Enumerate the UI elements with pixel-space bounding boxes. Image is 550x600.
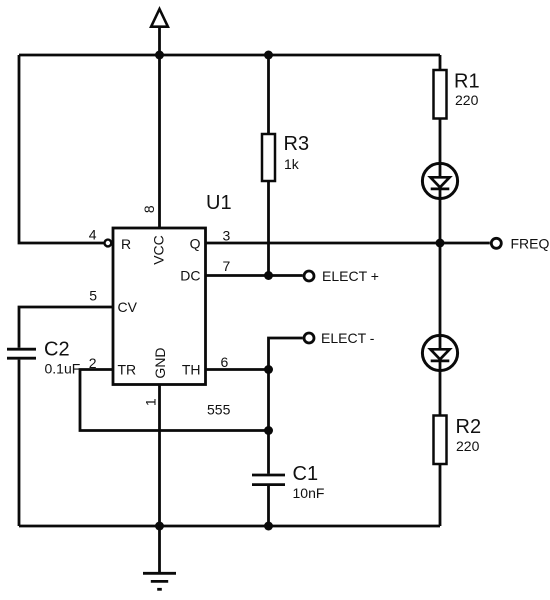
wire pin 7 DC to ELECT+	[206, 274, 303, 277]
svg-text:GND: GND	[152, 347, 168, 378]
wire pin 3 Q to FREQ	[206, 242, 490, 245]
wire left vertical to pin 4	[19, 55, 104, 243]
svg-text:1: 1	[143, 398, 159, 406]
ground symbol	[143, 526, 176, 589]
svg-text:R3: R3	[284, 133, 310, 155]
svg-text:4: 4	[89, 227, 97, 243]
junction ground rail pin1	[155, 522, 164, 531]
svg-text:TR: TR	[118, 362, 137, 378]
wire pin 6 TH	[206, 368, 269, 371]
svg-text:7: 7	[223, 258, 231, 274]
svg-text:220: 220	[456, 438, 480, 454]
junction DC / R3 bottom	[264, 271, 273, 280]
wire pin 5 CV to C2	[19, 307, 113, 348]
svg-text:CV: CV	[118, 299, 138, 315]
junction ground rail C1	[264, 522, 273, 531]
terminal ELECT+	[304, 271, 314, 281]
svg-text:ELECT +: ELECT +	[322, 268, 379, 284]
wire R1 LED column	[439, 55, 442, 526]
svg-text:10nF: 10nF	[293, 485, 325, 501]
svg-text:Q: Q	[190, 236, 201, 252]
svg-text:0.1uF: 0.1uF	[45, 361, 81, 377]
wire C1 bottom	[267, 486, 270, 526]
terminal FREQ	[491, 238, 501, 248]
svg-text:DC: DC	[180, 268, 200, 284]
svg-text:2: 2	[89, 355, 97, 371]
wire bottom rail	[19, 525, 440, 528]
svg-text:555: 555	[207, 402, 231, 418]
svg-text:R: R	[121, 236, 131, 252]
junction VCC rail	[155, 51, 164, 60]
resistor R1	[434, 70, 447, 119]
junction TH / ELECT-	[264, 365, 273, 374]
wire top rail	[19, 54, 440, 57]
capacitor C2 plates	[7, 349, 36, 358]
svg-text:ELECT -: ELECT -	[321, 330, 375, 346]
resistor R3	[262, 134, 275, 181]
svg-text:FREQ: FREQ	[511, 236, 550, 252]
capacitor C1 plates	[252, 475, 285, 485]
IC U1 555 box	[113, 228, 206, 385]
junction R3 top	[264, 51, 273, 60]
svg-text:C1: C1	[293, 463, 319, 485]
resistor R2	[434, 416, 447, 465]
wire R3 column	[267, 55, 270, 276]
svg-text:8: 8	[141, 205, 157, 213]
junction TR / C1	[264, 426, 273, 435]
svg-text:C2: C2	[44, 339, 70, 361]
LED D1	[422, 163, 457, 198]
svg-text:3: 3	[223, 228, 231, 244]
wire VCC stem pin 8	[158, 27, 161, 228]
svg-text:TH: TH	[182, 362, 201, 378]
svg-text:R2: R2	[456, 416, 482, 438]
svg-text:5: 5	[89, 288, 97, 304]
VCC power arrow	[151, 9, 168, 27]
svg-text:R1: R1	[454, 71, 480, 93]
wire pin 2 TR loop	[80, 370, 269, 431]
wire C2 bottom to ground rail	[18, 360, 21, 526]
svg-text:U1: U1	[206, 192, 232, 214]
svg-text:VCC: VCC	[150, 235, 166, 265]
svg-text:6: 6	[221, 354, 229, 370]
svg-text:1k: 1k	[284, 156, 300, 172]
wire pin 1 GND	[158, 385, 161, 527]
wire ELECT- branch and C1 column	[269, 338, 303, 474]
terminal ELECT-	[304, 333, 314, 343]
junction FREQ node	[436, 239, 445, 248]
svg-text:220: 220	[455, 92, 479, 108]
pin 4 inversion bubble	[105, 240, 112, 247]
LED D2	[422, 335, 457, 370]
